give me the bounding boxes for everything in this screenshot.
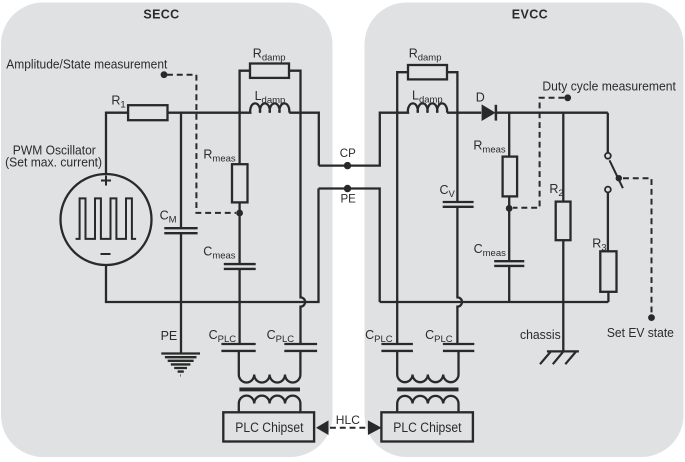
wire CV down with hop over rail (457, 207, 462, 344)
svg-text:SECC: SECC (143, 8, 179, 22)
inductor Ldamp (SECC) (240, 103, 301, 112)
resistor R2 (556, 202, 571, 241)
HLC arrowhead right (368, 420, 382, 435)
wire node down to Rmeas (238, 113, 240, 165)
capacitor CPLC 1 (221, 344, 255, 351)
diode D (482, 104, 496, 121)
inductor Ldamp (EVCC) (397, 103, 457, 112)
wire Cmeas to rail (EVCC) (508, 266, 510, 302)
wire Rdamp to right junction (289, 71, 301, 113)
resistor Rmeas (SECC) (232, 164, 248, 202)
transformer primary (EVCC) (397, 351, 458, 382)
transformer core (EVCC) (397, 387, 458, 391)
wire EVCC PE rail (380, 301, 609, 303)
svg-text:EVCC: EVCC (512, 8, 548, 22)
op-amp U1 : PWM oscillator source circle (61, 174, 152, 265)
resistor Rdamp (EVCC) (408, 65, 447, 79)
transformer secondary (SECC) (239, 396, 301, 413)
capacitor Cmeas (EVCC) (494, 261, 524, 266)
svg-text:Duty cycle measurement: Duty cycle measurement (542, 80, 676, 94)
wire up to Rdamp (EVCC) (397, 72, 408, 113)
PLC chipset box (EVCC) (381, 412, 473, 441)
wire Cmeas to PE rail and CPLC (238, 269, 240, 344)
wire diode to switch (496, 112, 608, 114)
svg-text:PLC Chipset: PLC Chipset (393, 420, 461, 435)
dashed measurement line (amplitude) (167, 75, 236, 213)
ground chassis symbol (540, 351, 579, 364)
svg-text:Set EV state: Set EV state (607, 326, 674, 340)
wire up to Rdamp (240, 71, 250, 113)
transformer primary (SECC) (239, 351, 301, 383)
transformer core (SECC) (239, 387, 300, 391)
wire CM to PE rail (180, 233, 182, 302)
switch S1 common node (616, 175, 622, 181)
switch S1 lever (610, 160, 623, 188)
svg-text:Amplitude/State measurement: Amplitude/State measurement (6, 58, 168, 72)
capacitor CPLC 2 (284, 344, 317, 351)
wire oscillator bottom / PE rail (106, 189, 319, 303)
wire node down to CM (180, 113, 182, 229)
node PE (344, 185, 351, 192)
EVCC panel background (365, 3, 684, 458)
node Rmeas measurement point (236, 210, 243, 217)
capacitor Cmeas (SECC) (224, 264, 256, 269)
svg-text:(Set max. current): (Set max. current) (5, 156, 102, 170)
switch S1 lower contact (605, 187, 611, 193)
wire CP line (319, 113, 397, 166)
svg-text:PLC Chipset: PLC Chipset (235, 420, 303, 435)
HLC dashed link (330, 427, 366, 429)
SECC panel background (1, 3, 333, 458)
wire top to switch (607, 113, 609, 153)
oscillator pulse waveform (76, 198, 137, 239)
svg-text:chassis: chassis (520, 328, 561, 342)
dashed control line (Set EV state) (623, 178, 652, 313)
ground PE earth symbol (161, 354, 200, 376)
wire PE line (319, 189, 380, 303)
dashed measurement line (duty cycle) (513, 98, 564, 208)
oscillator minus sign (101, 253, 111, 255)
node amplitude measurement point (161, 71, 168, 78)
capacitor CPLC 4 (443, 344, 474, 351)
wire CP-coupling (EVCC) crossing rail (396, 113, 398, 344)
svg-text:PE: PE (161, 329, 178, 343)
wire CP-coupling with hop over rail (301, 113, 306, 344)
svg-text:HLC: HLC (336, 413, 360, 427)
resistor R3 (600, 251, 616, 291)
capacitor CM (164, 228, 197, 233)
wire R2 to rail and chassis (562, 240, 564, 351)
node Set EV state point (648, 314, 655, 321)
node CP (344, 162, 351, 169)
HLC arrowhead left (316, 420, 329, 435)
wire node down to R2 (562, 113, 564, 202)
wire oscillator top to R1 (106, 113, 128, 174)
svg-text:CP: CP (340, 148, 356, 160)
wire node down to CV (456, 113, 458, 202)
svg-text:PE: PE (341, 193, 357, 205)
wire R3 to rail (607, 292, 609, 302)
oscillator plus sign (101, 176, 111, 186)
wire Rdamp to right junction (EVCC) (447, 72, 457, 113)
PLC chipset box (SECC) (223, 412, 314, 441)
wire lower contact to R3 (607, 192, 609, 251)
node Rmeas measurement point (EVCC) (506, 205, 513, 212)
wire Rmeas to Cmeas (EVCC) (508, 196, 510, 261)
resistor Rdamp (SECC) (250, 64, 289, 78)
svg-text:D: D (476, 90, 485, 104)
switch S1 upper contact (605, 153, 611, 159)
wire damp output to CP (301, 113, 319, 166)
wire Rmeas to Cmeas (238, 202, 240, 263)
wire node to Rmeas (EVCC) (508, 113, 510, 157)
node duty cycle measurement point (564, 94, 571, 101)
resistor Rmeas (EVCC) (503, 157, 517, 197)
transformer secondary (EVCC) (397, 396, 458, 412)
capacitor CV (443, 202, 474, 207)
wire R1 to damp junction (168, 112, 240, 114)
wire damp to diode (457, 112, 481, 114)
resistor R1 (128, 105, 167, 120)
wire PE rail to ground (180, 302, 182, 354)
capacitor CPLC 3 (381, 344, 413, 351)
